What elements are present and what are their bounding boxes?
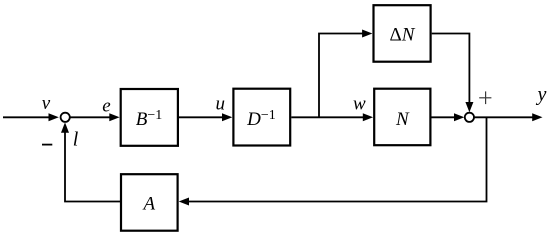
block B-1	[121, 89, 178, 146]
wire u: B to D	[179, 113, 232, 121]
wire branch up to DeltaN	[319, 30, 372, 118]
wire e: junction to B	[70, 113, 119, 121]
svg-text:v: v	[42, 93, 51, 114]
svg-text:ΔN: ΔN	[390, 24, 416, 45]
wire N output to right junction	[430, 113, 464, 121]
node summing junction left	[61, 113, 70, 122]
svg-text:e: e	[102, 95, 110, 116]
svg-text:N: N	[395, 109, 410, 130]
svg-text:A: A	[141, 193, 155, 214]
wire w: D to N with branch junction	[291, 113, 373, 121]
block N	[374, 89, 430, 146]
block DeltaN	[374, 5, 431, 62]
wire input v	[3, 113, 59, 121]
svg-text:w: w	[353, 93, 366, 114]
block A	[121, 174, 178, 231]
wire A output: left and up into left junction	[61, 122, 120, 201]
label plus	[479, 91, 491, 104]
svg-text:y: y	[536, 84, 547, 106]
svg-text:u: u	[216, 93, 226, 114]
label minus	[42, 144, 52, 146]
wire DeltaN output down to right junction	[432, 34, 474, 113]
svg-text:l: l	[73, 128, 79, 150]
wire output y	[475, 113, 543, 121]
block D-1	[233, 89, 290, 146]
node summing junction right	[465, 113, 474, 122]
wire feedback right: down and left into A	[179, 117, 487, 205]
